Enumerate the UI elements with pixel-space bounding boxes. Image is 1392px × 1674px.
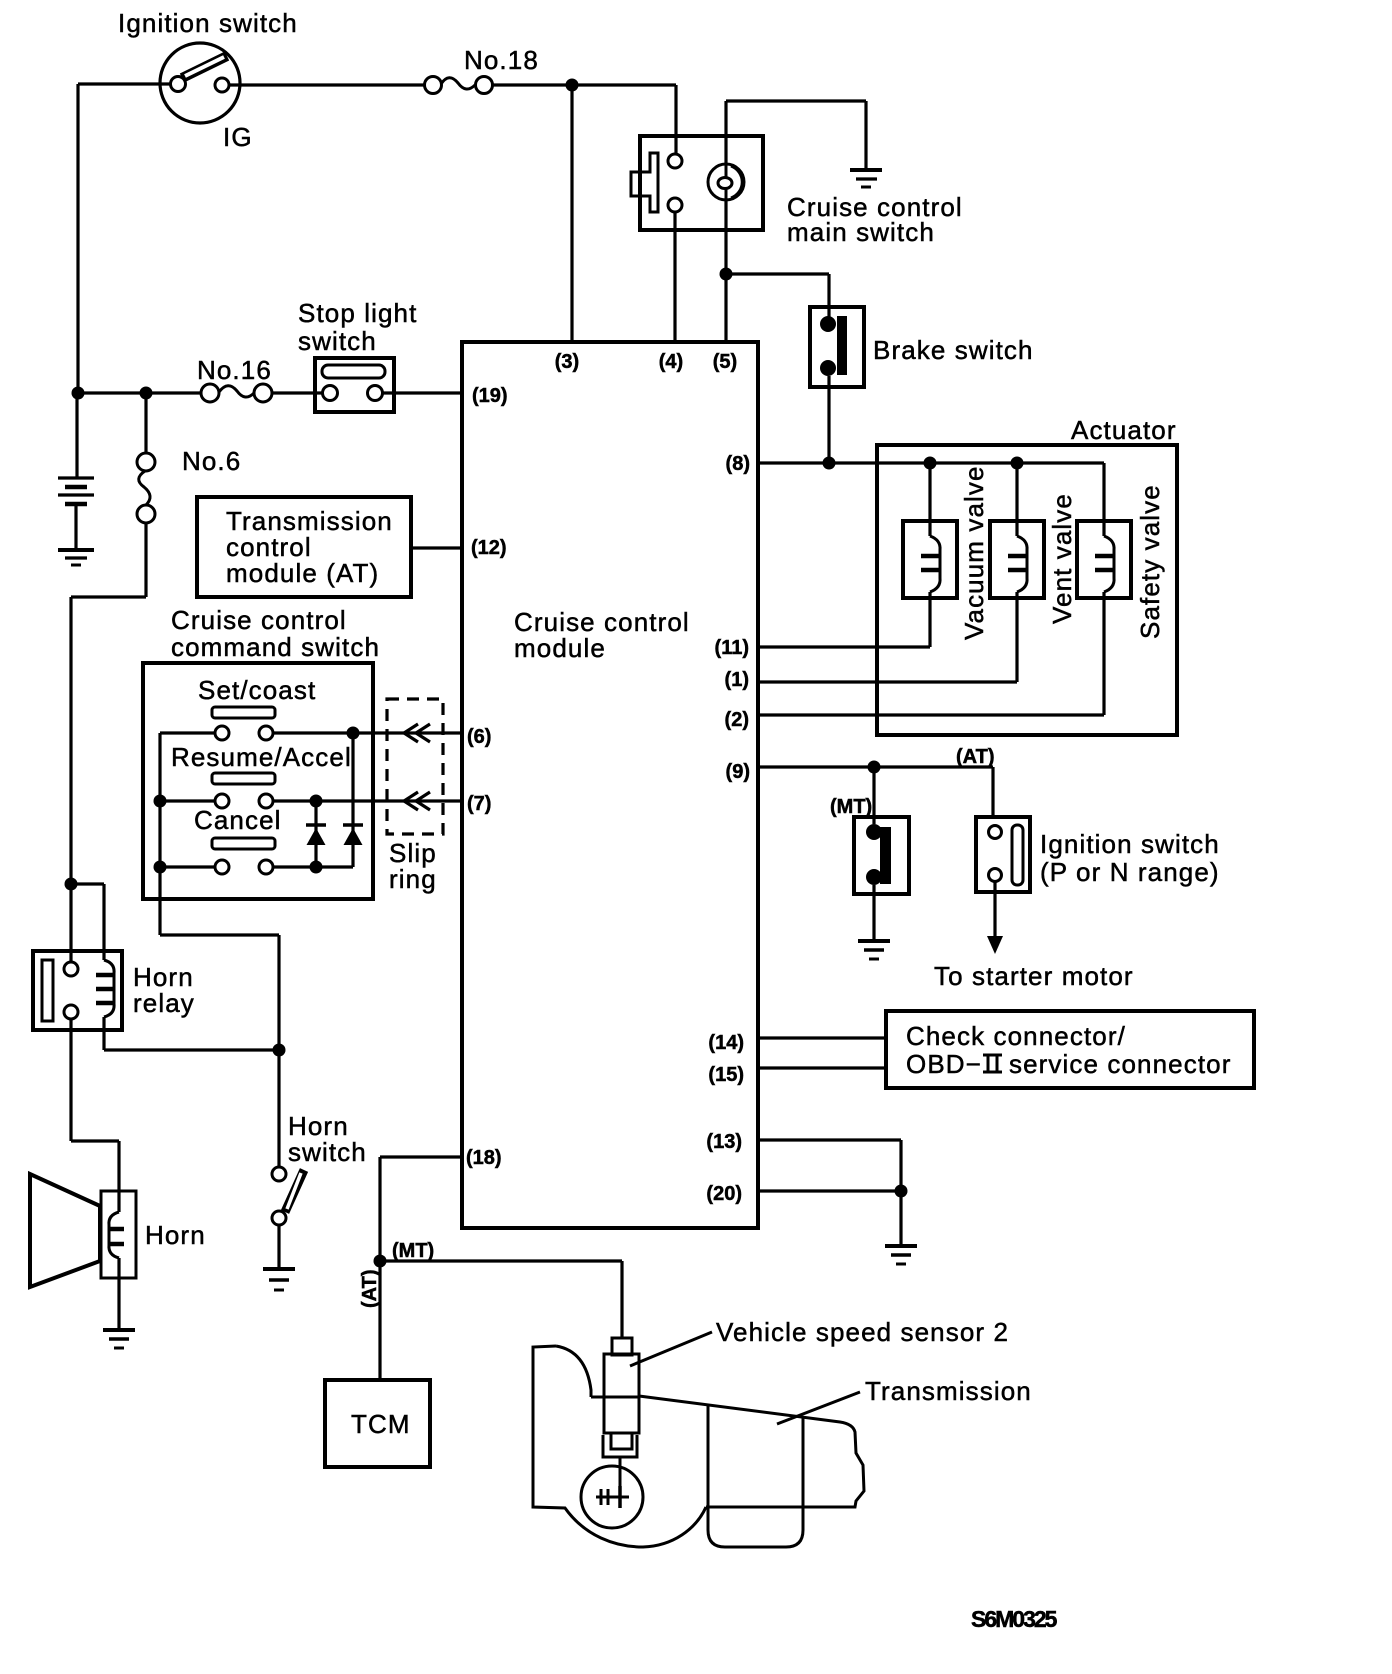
- cruise control module U1: [462, 342, 758, 1228]
- pin 3 label: [555, 351, 579, 373]
- actuator box: [877, 415, 1177, 735]
- gear selector circle: [581, 1466, 643, 1528]
- svg-text:Check connector/: Check connector/: [906, 1021, 1126, 1051]
- wire: junction to brake switch: [726, 274, 829, 317]
- wire: set/coast row: [160, 731, 462, 734]
- wire: pin 9 to AT ignition switch: [758, 767, 993, 817]
- transmission outline: [533, 1346, 1032, 1547]
- svg-text:(MT): (MT): [392, 1240, 434, 1262]
- node: junction MT park switch: [868, 761, 881, 774]
- pin 13 label: [706, 1131, 742, 1153]
- slip ring: [387, 699, 443, 894]
- net label (MT) at junction: [392, 1240, 434, 1262]
- svg-text:IG: IG: [223, 122, 253, 152]
- svg-text:(4): (4): [659, 351, 683, 373]
- wire: P/N switch to starter motor arrow: [934, 882, 1134, 991]
- switch Resume/Accel: [171, 742, 352, 808]
- wire: main switch lower contact to module pin 4: [673, 212, 676, 342]
- svg-text:Vacuum valve: Vacuum valve: [959, 465, 989, 640]
- wire: cancel row: [160, 865, 353, 868]
- ground (main switch): [850, 170, 882, 187]
- svg-text:(AT): (AT): [956, 746, 995, 768]
- wire: horn switch to ground: [277, 1225, 280, 1269]
- svg-text:ring: ring: [389, 864, 437, 894]
- wire: TCM(AT) to module pin 12: [411, 546, 462, 549]
- svg-text:(7): (7): [467, 793, 491, 815]
- svg-text:Vehicle speed sensor 2: Vehicle speed sensor 2: [716, 1317, 1009, 1347]
- stop light switch: [298, 298, 417, 412]
- cruise control command switch: [143, 605, 380, 899]
- pin 14 label: [708, 1032, 744, 1054]
- svg-text:switch: switch: [298, 326, 377, 356]
- vehicle speed sensor 2: [603, 1317, 1009, 1489]
- node: junction to brake switch: [720, 268, 733, 281]
- svg-text:S6M0325: S6M0325: [971, 1606, 1058, 1632]
- svg-text:(20): (20): [706, 1183, 742, 1205]
- wire: junction down to module pin 3: [570, 85, 573, 342]
- pin 6 label: [467, 726, 491, 748]
- svg-text:(13): (13): [706, 1131, 742, 1153]
- node: junction to horn relay coil: [65, 878, 78, 891]
- pin 11 label: [715, 637, 749, 659]
- wire: No.6 fuse to lower-left rail: [71, 523, 146, 962]
- svg-text:(11): (11): [715, 637, 749, 659]
- wire: command switch bus exit to horn switch junction: [160, 899, 279, 1050]
- vent valve solenoid: [990, 463, 1077, 624]
- svg-text:module (AT): module (AT): [226, 558, 379, 588]
- svg-text:Brake switch: Brake switch: [873, 335, 1034, 365]
- pin 8 label: [726, 453, 750, 475]
- wire: ignition switch to fuse No.18: [229, 83, 424, 86]
- node: junction vent valve: [1011, 457, 1024, 470]
- svg-text:Cancel: Cancel: [194, 805, 282, 835]
- node: cancel row left junction: [154, 861, 167, 874]
- pin 7 label: [467, 793, 491, 815]
- pin 15 label: [708, 1064, 744, 1086]
- pin 12 label: [471, 537, 507, 559]
- svg-text:(1): (1): [725, 669, 749, 691]
- node: junction vacuum valve: [924, 457, 937, 470]
- wire: resume row: [160, 799, 462, 802]
- vacuum valve solenoid: [903, 463, 989, 640]
- svg-text:switch: switch: [288, 1137, 367, 1167]
- wire: fuse No.18 to main switch branch: [492, 83, 676, 86]
- wire: stop light switch to module pin 19: [383, 391, 462, 394]
- pin 19 label: [472, 385, 508, 407]
- svg-text:To starter motor: To starter motor: [934, 961, 1134, 991]
- diode D1: [306, 801, 326, 867]
- wire: branch to relay coil: [71, 884, 104, 960]
- svg-text:(12): (12): [471, 537, 507, 559]
- svg-text:(14): (14): [708, 1032, 744, 1054]
- net label (MT): [830, 796, 872, 818]
- svg-text:OBD−: OBD−: [906, 1049, 982, 1079]
- wire: pin 8 to actuator: [758, 461, 1104, 464]
- svg-text:module: module: [514, 633, 606, 663]
- svg-text:(15): (15): [708, 1064, 744, 1086]
- node: junction MT/AT speed signal: [374, 1255, 387, 1268]
- wire: down into main switch pin 4 contact: [674, 85, 677, 154]
- ground (horn): [103, 1330, 135, 1348]
- ground (horn switch): [263, 1269, 295, 1290]
- svg-text:Actuator: Actuator: [1071, 415, 1177, 445]
- wire: junction to MT switch: [872, 767, 875, 824]
- svg-text:(5): (5): [713, 351, 737, 373]
- node: junction horn switch: [273, 1044, 286, 1057]
- svg-text:(6): (6): [467, 726, 491, 748]
- check connector / OBD-II service connector: [886, 1011, 1254, 1088]
- wire: left rail down to No.16 row: [76, 84, 79, 393]
- wire: junction down to horn switch: [277, 1050, 280, 1167]
- node: set row junction to diode D2: [347, 727, 360, 740]
- wire: command switch left bus: [158, 733, 161, 899]
- svg-text:Stop light: Stop light: [298, 298, 417, 328]
- wire: horn to ground: [117, 1258, 120, 1330]
- horn relay: [33, 951, 195, 1030]
- svg-text:Ignition switch: Ignition switch: [1040, 829, 1220, 859]
- node: resume row junction to diode D1: [310, 795, 323, 808]
- ground (battery): [58, 550, 94, 565]
- svg-text:TCM: TCM: [351, 1409, 411, 1439]
- battery: [58, 478, 94, 504]
- switch Cancel: [194, 805, 282, 874]
- node: junction left rail / No.16 row: [72, 387, 85, 400]
- svg-text:Ignition switch: Ignition switch: [118, 8, 298, 38]
- brake switch: [810, 307, 1034, 387]
- svg-text:(2): (2): [725, 709, 749, 731]
- wire: No.6 branch down: [144, 393, 147, 453]
- svg-text:(AT): (AT): [359, 1270, 381, 1309]
- fuse No.16: [197, 355, 272, 402]
- svg-text:(8): (8): [726, 453, 750, 475]
- pin 9 label: [726, 761, 750, 783]
- svg-text:(19): (19): [472, 385, 508, 407]
- ground (pin 20): [885, 1246, 917, 1264]
- svg-text:(MT): (MT): [830, 796, 872, 818]
- node: junction on No.18 line feeding pin 3: [566, 79, 579, 92]
- horn switch: [272, 1111, 367, 1225]
- svg-text:Transmission: Transmission: [865, 1376, 1032, 1406]
- pin 5 label: [713, 351, 737, 373]
- net label (AT) at junction: [359, 1270, 381, 1309]
- pin 20 label: [706, 1183, 742, 1205]
- ground (MT switch): [858, 941, 890, 959]
- svg-text:Safety valve: Safety valve: [1135, 484, 1165, 639]
- safety valve solenoid: [1077, 463, 1165, 639]
- wire: No.16 row to fuse: [78, 391, 201, 394]
- svg-text:Set/coast: Set/coast: [198, 675, 316, 705]
- node: junction brake switch on pin 8 line: [823, 457, 836, 470]
- transmission control module (AT): [197, 497, 411, 597]
- svg-text:relay: relay: [133, 988, 195, 1018]
- wire: brake switch to pin 8 line: [827, 376, 830, 463]
- svg-text:Cruise control: Cruise control: [171, 605, 347, 635]
- wire: pin 15 to check connector: [758, 1066, 886, 1069]
- slip ring contact arrows pin 7: [404, 792, 430, 810]
- pin 2 label: [725, 709, 749, 731]
- wire: pin 18 to MT/AT junction: [380, 1157, 462, 1380]
- wire: fuse No.16 to stop light switch: [272, 391, 322, 394]
- pin 4 label: [659, 351, 683, 373]
- wire: junction to vehicle speed sensor: [380, 1261, 622, 1338]
- wire: top feed from left rail to ignition switch: [78, 82, 170, 85]
- fuse No.18: [425, 45, 539, 94]
- cruise control main switch: [631, 136, 963, 247]
- svg-text:command switch: command switch: [171, 632, 380, 662]
- pin 1 label: [725, 669, 749, 691]
- ignition switch (P or N range): [976, 817, 1220, 892]
- TCM: [325, 1380, 430, 1467]
- svg-text:(9): (9): [726, 761, 750, 783]
- svg-text:No.16: No.16: [197, 355, 272, 385]
- svg-text:No.6: No.6: [182, 446, 241, 476]
- ignition switch IG: [118, 8, 298, 152]
- wire: vacuum valve to pin 11: [758, 592, 930, 647]
- pin 18 label: [466, 1147, 502, 1169]
- svg-text:service connector: service connector: [1009, 1049, 1231, 1079]
- slip ring contact arrows pin 6: [404, 724, 430, 742]
- svg-text:(P or N range): (P or N range): [1040, 857, 1220, 887]
- svg-text:No.18: No.18: [464, 45, 539, 75]
- diode D2: [343, 733, 363, 867]
- fuse No.6: [137, 446, 241, 523]
- figure number S6M0325: [971, 1606, 1058, 1632]
- wire: down to battery: [75, 393, 78, 477]
- svg-text:(18): (18): [466, 1147, 502, 1169]
- node: junction pins 13/20: [895, 1185, 908, 1198]
- svg-text:(3): (3): [555, 351, 579, 373]
- horn: [30, 1174, 206, 1287]
- wire: pin 14 to check connector: [758, 1036, 886, 1039]
- wire: relay contact bottom to horn: [71, 1019, 119, 1212]
- wire: battery to ground: [74, 504, 77, 549]
- wire: pin 20 to ground: [758, 1191, 901, 1246]
- svg-text:Resume/Accel: Resume/Accel: [171, 742, 352, 772]
- net label (AT): [956, 746, 995, 768]
- wire: safety valve to pin 2: [758, 592, 1104, 715]
- wire: relay coil bottom to horn switch junction: [104, 1017, 279, 1050]
- svg-text:Vent valve: Vent valve: [1047, 493, 1077, 624]
- switch Set/coast: [198, 675, 316, 740]
- wire: vent valve to pin 1: [758, 592, 1017, 682]
- svg-text:Horn: Horn: [145, 1220, 206, 1250]
- wire: lamp bottom to module pin 5: [724, 200, 727, 342]
- wire: lamp top to ground at right: [726, 101, 866, 170]
- MT clutch switch: [854, 817, 909, 894]
- node: cancel row diode junctions: [310, 861, 323, 874]
- node: resume row left junction: [154, 795, 167, 808]
- svg-text:main switch: main switch: [787, 217, 935, 247]
- wire: pin 13 joining pin 20: [758, 1140, 901, 1191]
- wire: MT switch to ground: [872, 885, 875, 941]
- node: junction No.6 branch: [140, 387, 153, 400]
